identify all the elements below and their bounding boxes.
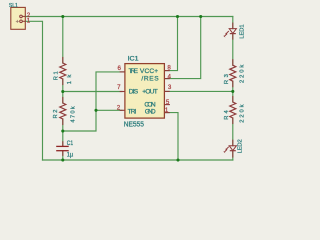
svg-text:1: 1 — [27, 18, 31, 25]
svg-text:3: 3 — [168, 84, 172, 91]
svg-text:2: 2 — [117, 104, 121, 111]
svg-text:/RES: /RES — [141, 76, 159, 83]
svg-text:DIS: DIS — [129, 88, 139, 95]
svg-text:8: 8 — [167, 65, 171, 72]
svg-text:5: 5 — [166, 99, 170, 106]
svg-text:IC1: IC1 — [128, 57, 140, 63]
svg-text:6: 6 — [118, 65, 122, 72]
svg-text:4: 4 — [168, 73, 172, 80]
svg-text:1µ: 1µ — [67, 153, 74, 159]
svg-text:TRI: TRI — [128, 109, 137, 116]
svg-text:VCC+: VCC+ — [140, 68, 158, 75]
svg-text:SL1: SL1 — [9, 3, 18, 9]
svg-text:CON: CON — [144, 102, 155, 109]
svg-text:7: 7 — [117, 84, 121, 91]
svg-text:C1: C1 — [67, 141, 74, 147]
svg-text:LED1: LED1 — [240, 24, 246, 38]
svg-text:470k: 470k — [71, 106, 77, 122]
svg-text:LED2: LED2 — [237, 139, 243, 153]
svg-text:GND: GND — [145, 109, 156, 116]
svg-text:NE555: NE555 — [124, 119, 144, 128]
svg-text:1: 1 — [165, 107, 169, 114]
svg-text:TRE: TRE — [129, 68, 139, 75]
svg-text:+OUT: +OUT — [142, 88, 158, 95]
